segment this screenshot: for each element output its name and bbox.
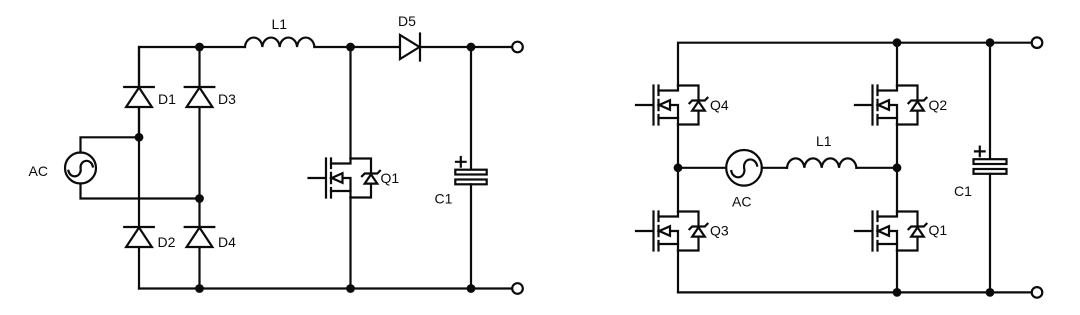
svg-text:L1: L1 (272, 16, 288, 32)
svg-text:AC: AC (732, 194, 751, 210)
wire Q2 source to node (896, 125, 898, 168)
wire inductor to right leg (856, 167, 897, 169)
node top rail / Q1 drain (346, 43, 355, 52)
diode D5 (400, 34, 420, 61)
svg-text:AC: AC (29, 163, 48, 179)
terminal output positive right (1032, 37, 1043, 48)
wire top rail right circuit (678, 43, 1032, 86)
wire top rail left (139, 47, 245, 137)
wire node to ac (678, 167, 726, 169)
terminal output negative right (1032, 287, 1043, 298)
svg-text:Q3: Q3 (710, 223, 729, 239)
wire C1 top lead (470, 47, 472, 170)
wire Q3 source to bottom rail (677, 251, 679, 293)
inductor L1 (245, 38, 314, 47)
node ac to D3/D4 midpoint (195, 194, 204, 203)
capacitor C1 (455, 170, 486, 185)
wire Q1 right source to bottom rail (896, 251, 898, 293)
node top rail / C1 (986, 38, 995, 47)
wire top rail mid (314, 46, 400, 48)
wire Q1 drain (349, 47, 351, 159)
node ac to D1/D2 midpoint (135, 133, 144, 142)
svg-text:C1: C1 (435, 191, 453, 207)
svg-text:D5: D5 (398, 13, 416, 29)
wire C1 right top lead (989, 43, 991, 160)
ac source V2 (726, 150, 762, 186)
svg-text:Q1: Q1 (381, 170, 400, 186)
wire ac to inductor (762, 167, 787, 169)
wire ac bottom lead (81, 184, 200, 199)
svg-text:Q2: Q2 (929, 97, 948, 113)
transistor Q3 (636, 212, 708, 251)
node left leg midpoint (674, 163, 683, 172)
diode D1 (124, 87, 154, 107)
transistor Q1 right (855, 212, 927, 251)
terminal output negative left (512, 283, 523, 294)
wire ac top lead (81, 137, 140, 152)
transistor Q4 (636, 86, 708, 125)
wire Q2 drain (896, 43, 898, 86)
node bottom rail / Q1 source (893, 288, 902, 297)
node bottom rail / Q1 source (346, 284, 355, 293)
node bottom rail / D4 branch (195, 284, 204, 293)
wire right branch (D3/D4) (198, 47, 200, 289)
node bottom rail / C1 right (986, 288, 995, 297)
inductor L1 right (787, 158, 856, 167)
svg-text:Q4: Q4 (710, 97, 729, 113)
diode D3 (185, 87, 215, 107)
label plus polarity right (975, 147, 985, 157)
ac source V1 (65, 153, 96, 184)
wire bottom rail (139, 287, 512, 289)
wire bottom rail right circuit (678, 291, 1032, 293)
node bottom rail / C1 (467, 284, 476, 293)
terminal output positive left (512, 42, 523, 53)
wire Q4 source to node (677, 125, 679, 168)
wire Q3 drain from node (677, 168, 679, 212)
node top rail / C1 (467, 43, 476, 52)
wire Q1 right drain from node (896, 168, 898, 212)
node top rail / Q2 drain (893, 38, 902, 47)
svg-text:Q1: Q1 (929, 222, 948, 238)
wire left branch (D1/D2) (138, 47, 140, 289)
transistor Q2 (855, 86, 927, 125)
svg-text:D2: D2 (158, 234, 176, 250)
capacitor C1 right (974, 159, 1007, 174)
node top rail / D3 branch (195, 43, 204, 52)
svg-text:D4: D4 (218, 234, 236, 250)
svg-text:L1: L1 (816, 133, 832, 149)
svg-text:C1: C1 (954, 183, 972, 199)
node right leg midpoint (893, 163, 902, 172)
wire C1 right bottom lead (989, 174, 991, 293)
svg-text:D1: D1 (158, 91, 176, 107)
transistor Q1 (309, 159, 381, 198)
diode D4 (185, 227, 215, 247)
svg-text:D3: D3 (218, 91, 236, 107)
wire Q1 source (349, 198, 351, 289)
wire top rail right (420, 46, 512, 48)
diode D2 (124, 227, 154, 247)
wire C1 bottom lead (470, 184, 472, 288)
label plus polarity (456, 157, 466, 167)
